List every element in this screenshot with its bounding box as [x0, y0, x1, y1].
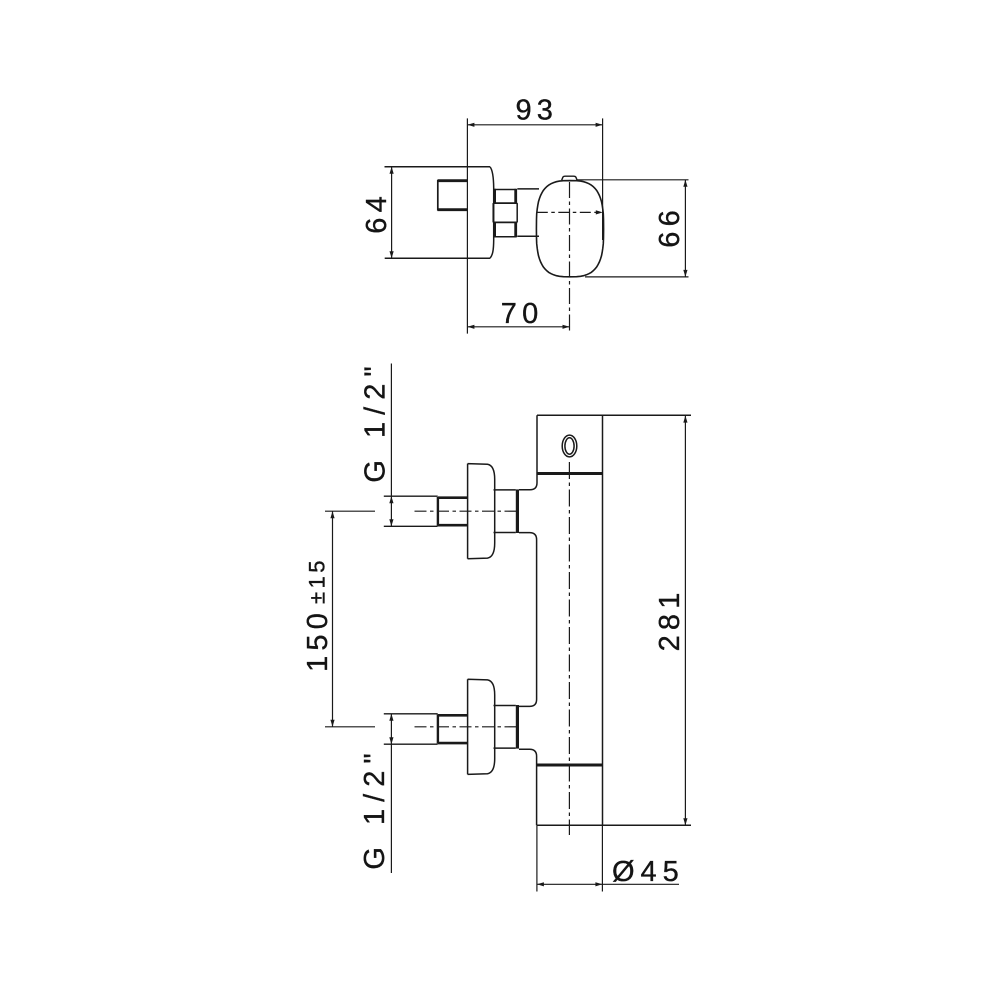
- screw hole outer oval: [562, 435, 577, 457]
- horizontal centerline of pipe axis (top view): [537, 211, 599, 213]
- hex nut upper flat line: [493, 202, 517, 204]
- lower G 1/2 dimension line: [390, 714, 392, 873]
- dimension 70 line: [467, 326, 569, 328]
- front body left edge upper (cap zone): [519, 415, 537, 490]
- svg-text:281: 281: [654, 587, 686, 651]
- lower boss left face (bold): [516, 705, 519, 749]
- lower outer pipe bottom edge (bold): [438, 742, 468, 745]
- upper G 1/2 top arrow: [389, 496, 393, 503]
- lower collar bottom edge: [494, 747, 516, 749]
- screw hole inner oval: [565, 438, 574, 454]
- lower pipe bottom edge: [384, 743, 438, 745]
- knob top bump: [562, 176, 577, 180]
- hex nut right face lower band (bold): [514, 222, 517, 237]
- dimension 66 bottom extension line: [585, 276, 689, 278]
- collar top edge: [517, 188, 539, 190]
- dimension 66 line: [684, 180, 686, 277]
- dimension 281 line: [684, 416, 686, 826]
- dimension 150 bottom arrow: [330, 720, 334, 727]
- dimension 70 right arrow: [563, 325, 570, 329]
- dimension 66 bottom arrow: [683, 270, 687, 277]
- front body bottom edge + 281 extension: [537, 824, 691, 826]
- lower collar top edge: [494, 705, 516, 707]
- svg-text:Ø45: Ø45: [612, 856, 685, 888]
- dimension 93 line: [467, 124, 602, 126]
- front body left edge lower: [519, 749, 537, 825]
- lower G 1/2 top arrow: [389, 714, 393, 721]
- dimension 150 line: [332, 511, 334, 727]
- upper pipe step divider (bold): [437, 497, 439, 526]
- svg-text:G 1/2": G 1/2": [359, 746, 391, 869]
- dimension 150 extension top: [325, 510, 375, 512]
- hex nut left face upper band (bold): [493, 189, 496, 204]
- upper pipe top edge: [384, 495, 438, 497]
- vertical centerline of knob: [569, 182, 571, 334]
- dimension 150 extension bottom: [325, 726, 375, 728]
- diameter 45 dimension line: [537, 883, 679, 885]
- hex nut right face upper band (bold): [514, 189, 517, 204]
- lower pipe top edge: [384, 713, 438, 715]
- upper pipe bottom edge: [384, 525, 438, 527]
- hex nut middle band left corner edge: [492, 203, 494, 222]
- dimension 70 left arrow: [467, 325, 474, 329]
- upper pipe centerline: [415, 510, 518, 512]
- square notch left edge: [437, 180, 439, 211]
- svg-text:G 1/2": G 1/2": [360, 359, 392, 482]
- square notch top edge (bold): [438, 179, 468, 182]
- upper collar top edge: [494, 489, 516, 491]
- dimension 64 top arrow: [390, 167, 394, 174]
- collar bottom edge: [517, 235, 539, 237]
- front body right edge: [602, 415, 604, 825]
- hex nut middle band right corner edge: [516, 203, 518, 222]
- lower bold line: [537, 764, 603, 767]
- svg-text:66: 66: [654, 205, 686, 248]
- square notch bottom edge (bold): [438, 208, 468, 211]
- dimension 66 top arrow: [683, 180, 687, 187]
- knob oval (top view): [536, 181, 603, 277]
- svg-text:±15: ±15: [304, 557, 329, 604]
- lower outer pipe top edge (bold): [438, 714, 468, 717]
- upper outer pipe top edge (bold): [438, 496, 468, 499]
- front body vertical centerline: [568, 462, 570, 835]
- hex nut lower flat line: [493, 221, 517, 223]
- diameter 45 right arrow: [595, 882, 602, 886]
- svg-text:93: 93: [515, 94, 558, 126]
- lower pipe step divider (bold): [437, 715, 439, 744]
- top view body right curved edge: [490, 167, 494, 258]
- upper boss left face (bold): [516, 489, 519, 533]
- diameter 45 extension left: [536, 825, 538, 891]
- cap bottom bold line: [537, 472, 603, 475]
- lower rosette: [468, 679, 495, 774]
- dimension 93 left arrow: [467, 123, 474, 127]
- lower G 1/2 bottom arrow: [389, 737, 393, 744]
- dimension 66 top extension line: [577, 179, 689, 181]
- dimension 64 bottom arrow: [390, 251, 394, 258]
- dimension 281 bottom arrow: [683, 818, 687, 825]
- top view body bottom edge: [385, 257, 490, 259]
- top view body top edge: [385, 166, 491, 168]
- dimension 64 line: [391, 167, 393, 258]
- dimension 281 top arrow: [683, 416, 687, 423]
- dimension 150 top arrow: [330, 511, 334, 518]
- svg-text:70: 70: [501, 298, 544, 330]
- upper G 1/2 bottom arrow: [389, 519, 393, 526]
- upper outer pipe bottom edge (bold): [438, 524, 468, 527]
- diameter 45 left arrow: [537, 882, 544, 886]
- front body left edge middle (between bosses): [519, 533, 537, 707]
- front body top edge + 281 extension: [537, 414, 691, 416]
- upper G 1/2 dimension line: [390, 364, 392, 527]
- hex nut bottom edge: [494, 236, 516, 238]
- diameter 45 extension right: [601, 825, 603, 891]
- svg-text:150: 150: [302, 608, 334, 672]
- svg-text:64: 64: [361, 191, 393, 234]
- upper collar bottom edge: [494, 532, 516, 534]
- extension line right of 93: [602, 118, 604, 240]
- hex nut top edge: [494, 189, 516, 191]
- dimension 93 right arrow: [596, 123, 603, 127]
- centerline end arrow: [596, 210, 603, 214]
- upper rosette: [468, 464, 495, 559]
- extension line through body (left of 93 / 70): [466, 118, 468, 333]
- hex nut left face lower band (bold): [493, 222, 496, 237]
- lower pipe centerline: [415, 726, 518, 728]
